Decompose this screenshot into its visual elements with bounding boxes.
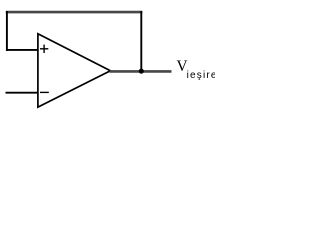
- wire feedback left vertical: [6, 11, 8, 51]
- wire feedback top horizontal: [6, 11, 143, 14]
- wire inverting input: [6, 92, 38, 94]
- wire output: [110, 70, 172, 73]
- op-amp minus input marking: [40, 91, 49, 93]
- op-amp plus input marking: [40, 45, 48, 53]
- node junction dot: [139, 69, 144, 74]
- wire feedback right vertical: [140, 11, 142, 71]
- op-amp U1: [38, 34, 111, 107]
- svg-text:ieşire: ieşire: [187, 70, 215, 81]
- wire to non-inverting input: [6, 49, 38, 51]
